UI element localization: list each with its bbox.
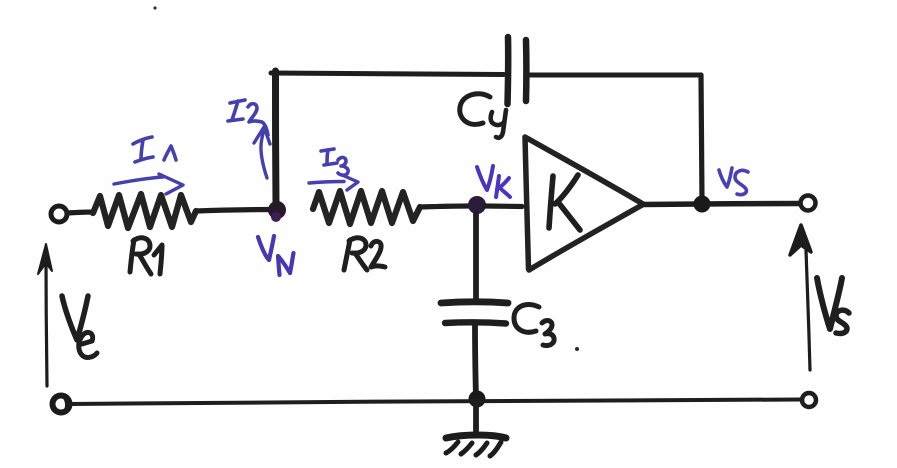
capacitor C4 right plate	[523, 40, 530, 101]
capacitor C4 left plate	[504, 37, 511, 104]
wire node down to ground	[473, 404, 479, 435]
node Vk (junction dot)	[468, 196, 486, 214]
label C3	[514, 305, 554, 346]
Vs measurement arrow (right)	[806, 250, 810, 370]
label VN (blue)	[258, 236, 294, 275]
label I2 (blue)	[228, 100, 268, 135]
wire down from top rail to output node	[701, 75, 702, 200]
label I1 (blue)	[133, 137, 176, 162]
label C4	[460, 94, 506, 138]
wire node Vk down to C3	[473, 214, 479, 298]
label vs (blue, at output node)	[719, 168, 748, 195]
Ve measurement arrow	[46, 260, 47, 386]
output terminal (right top)	[801, 196, 816, 211]
wire R1 to node VN	[196, 210, 276, 212]
wire C3 to bottom rail	[475, 326, 476, 398]
label K inside amplifier	[549, 175, 580, 230]
arrow I2 (blue)	[254, 127, 270, 178]
bottom-right terminal	[802, 393, 816, 407]
scan speck middle right	[575, 347, 579, 351]
scan speck top	[153, 6, 156, 9]
label I3 (blue)	[321, 149, 348, 175]
wire top rail right segment from C4	[529, 73, 701, 78]
arrow I1 (blue)	[114, 174, 183, 194]
wire node Vk to amplifier input	[485, 203, 522, 209]
label R2	[344, 238, 385, 270]
wire top rail left segment to C4	[271, 73, 504, 75]
wire R2 to node Vk	[420, 206, 470, 207]
node VN (junction dot)	[268, 201, 286, 219]
node at bottom rail	[469, 391, 486, 408]
resistor R2	[313, 191, 420, 224]
capacitor C3 top plate	[441, 302, 508, 303]
wire VN node up to top rail	[272, 71, 280, 206]
wire input terminal to R1	[67, 212, 94, 213]
wire amplifier output to output terminal	[643, 204, 800, 205]
input terminal (left)	[51, 206, 67, 222]
op-amp K triangle	[525, 137, 643, 270]
ground symbol	[446, 435, 506, 438]
arrow I3 (blue)	[309, 175, 358, 190]
output node dot	[694, 196, 711, 213]
bottom rail wire	[70, 400, 800, 405]
label Vk (blue)	[477, 166, 510, 197]
capacitor C3 bottom plate	[445, 322, 506, 323]
resistor R1	[93, 194, 196, 228]
label Ve	[62, 296, 97, 357]
label R1	[130, 238, 162, 274]
label Vs	[817, 278, 849, 333]
bottom-left terminal	[53, 396, 70, 413]
